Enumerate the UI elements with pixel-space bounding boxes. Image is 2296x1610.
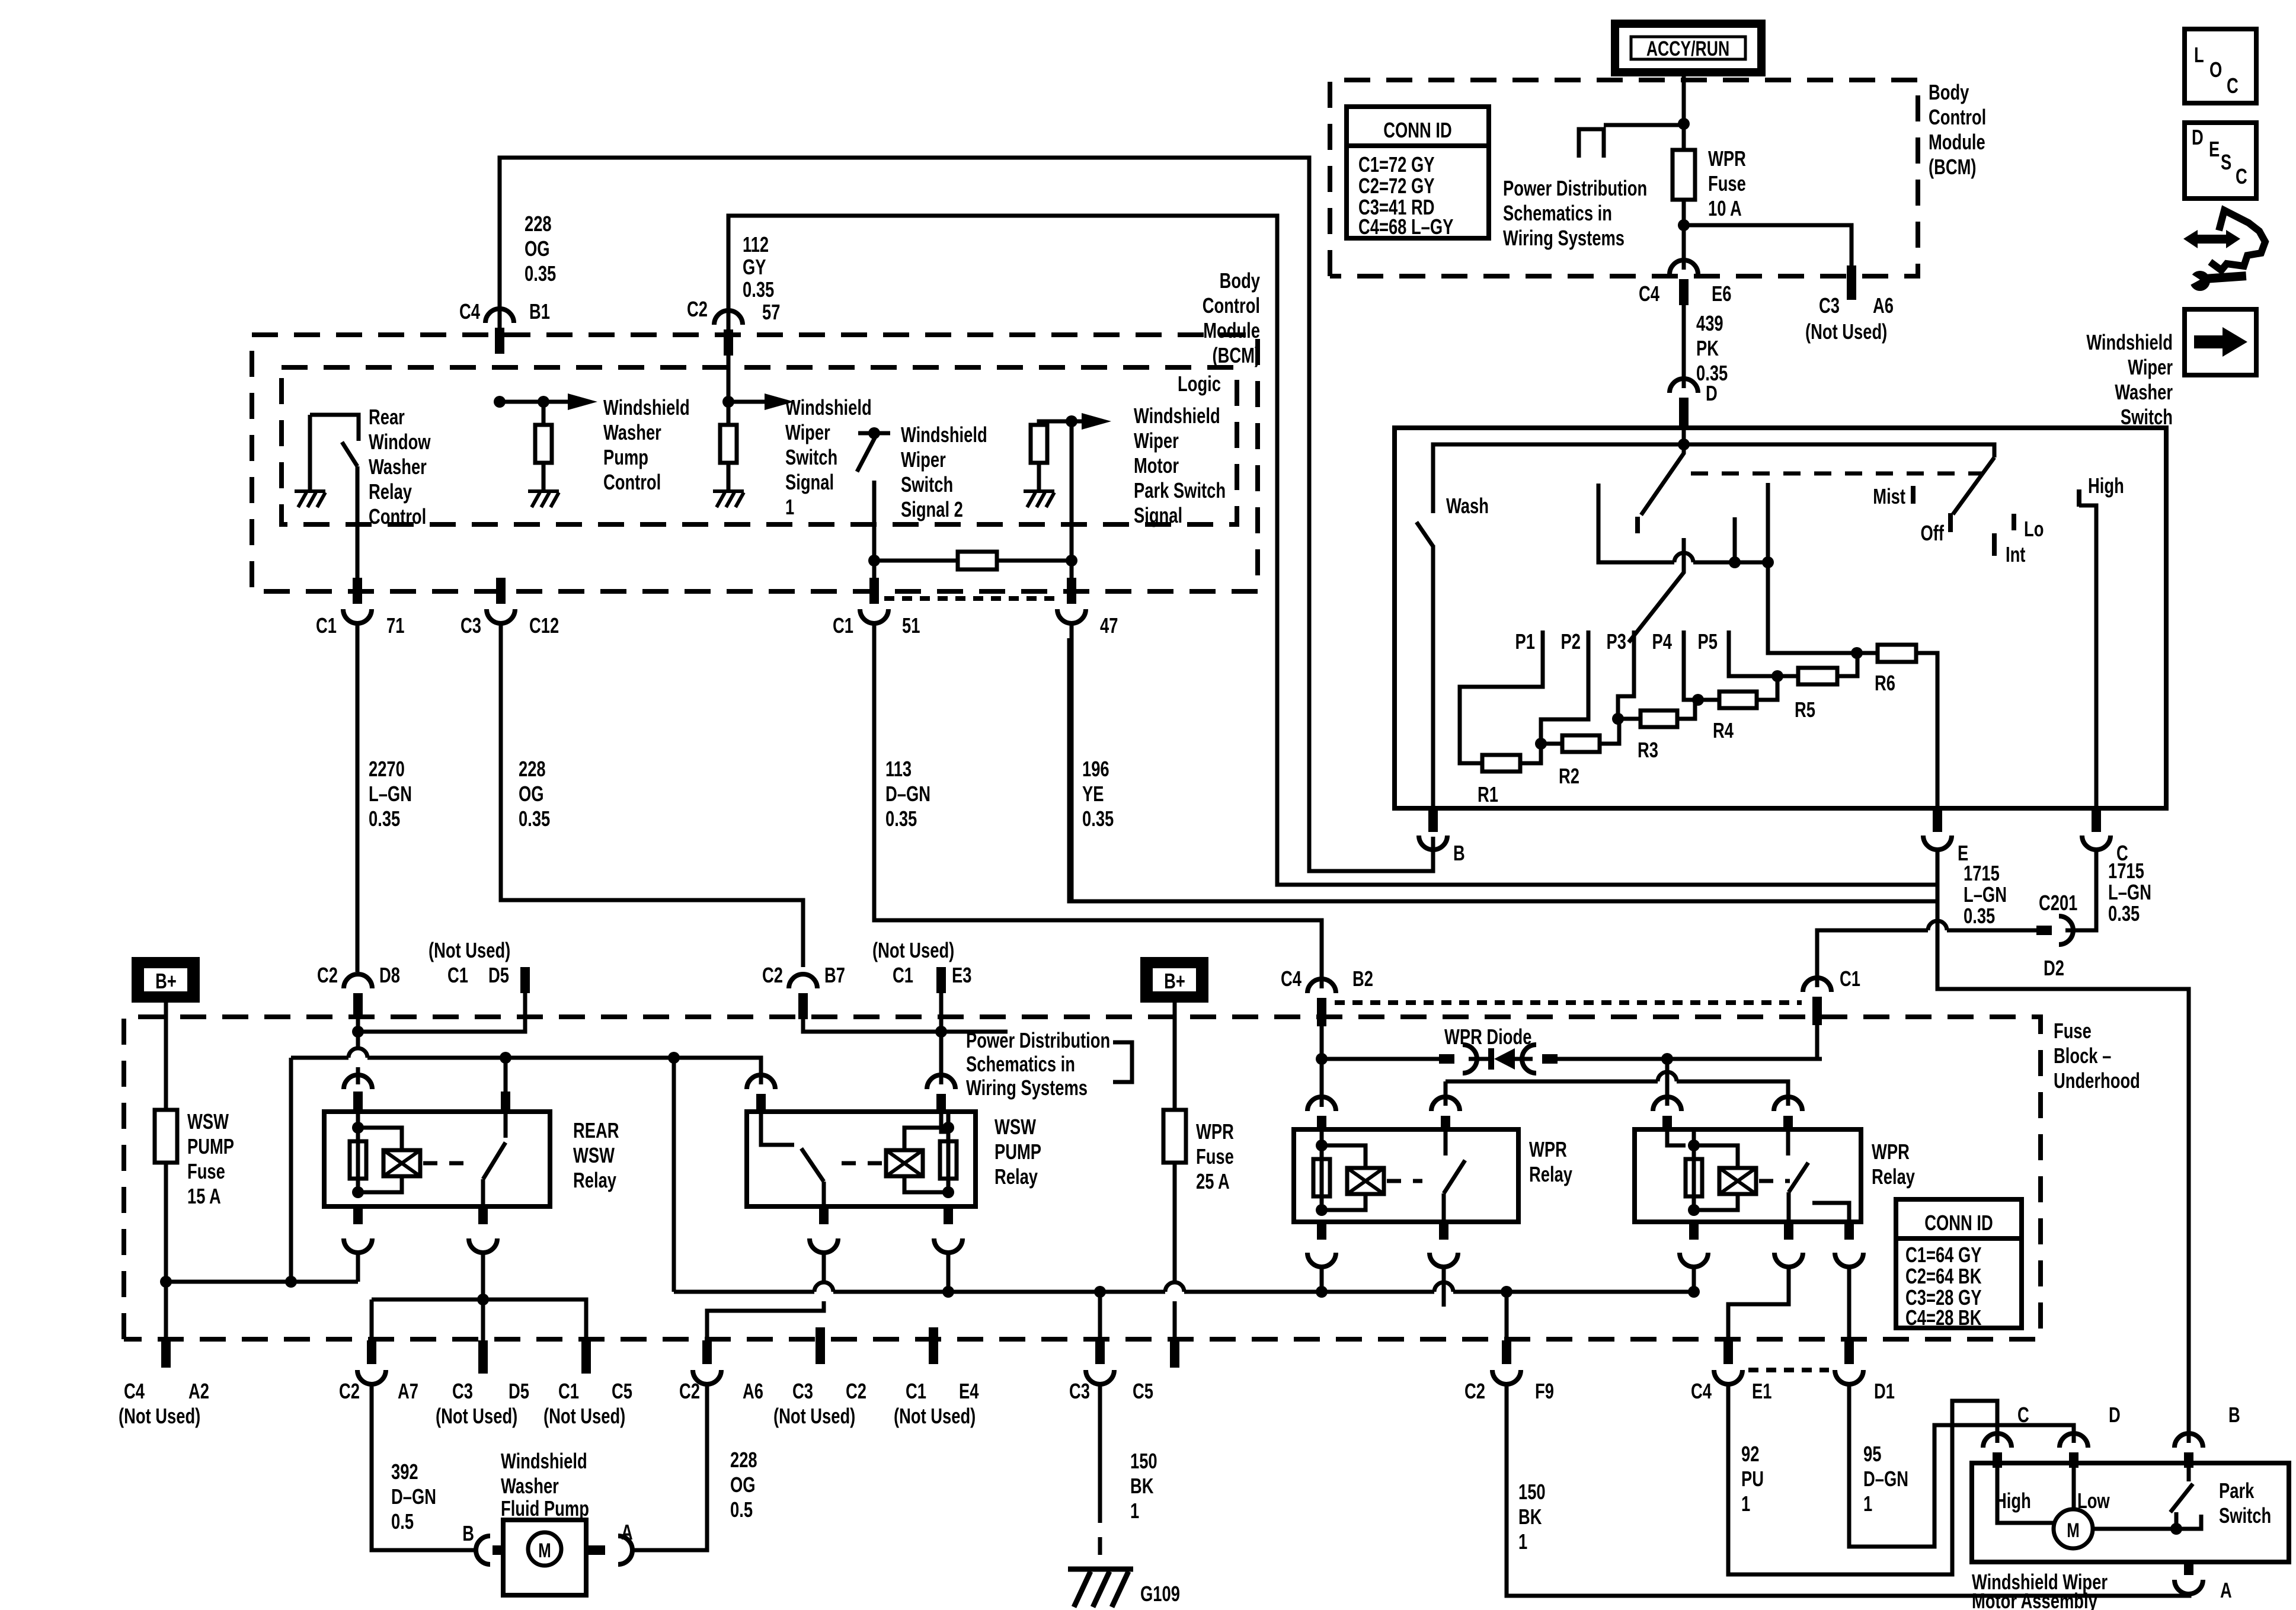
svg-text:WSW: WSW [994, 1115, 1037, 1139]
svg-text:1: 1 [785, 495, 794, 519]
svg-text:D2: D2 [2044, 956, 2064, 980]
svg-text:BK: BK [1518, 1505, 1542, 1529]
svg-text:C3: C3 [461, 613, 481, 638]
svg-text:0.35: 0.35 [1964, 904, 1995, 928]
svg-text:A6: A6 [1873, 293, 1894, 318]
svg-text:Control: Control [1203, 293, 1260, 318]
svg-text:1: 1 [1863, 1491, 1872, 1516]
svg-text:PK: PK [1696, 336, 1719, 360]
svg-text:228: 228 [525, 212, 552, 236]
svg-text:PUMP: PUMP [994, 1140, 1041, 1164]
svg-text:C: C [2236, 164, 2247, 188]
svg-text:Module: Module [1929, 130, 1985, 154]
svg-text:Windshield: Windshield [1134, 404, 1220, 428]
svg-text:Wiper: Wiper [2128, 355, 2173, 379]
svg-text:L: L [2194, 43, 2204, 67]
svg-text:Fluid Pump: Fluid Pump [501, 1496, 589, 1521]
svg-text:1: 1 [1518, 1529, 1527, 1554]
svg-text:Control: Control [603, 470, 661, 494]
svg-text:CONN ID: CONN ID [1924, 1211, 1993, 1235]
svg-text:L–GN: L–GN [1964, 882, 2007, 907]
svg-text:Fuse: Fuse [2054, 1019, 2092, 1043]
svg-text:P2: P2 [1561, 629, 1581, 654]
svg-text:O: O [2209, 57, 2222, 82]
svg-text:Signal: Signal [785, 470, 834, 494]
svg-text:WPR: WPR [1529, 1137, 1567, 1161]
svg-text:0.35: 0.35 [369, 806, 400, 831]
svg-text:M: M [538, 1540, 551, 1562]
svg-text:C4: C4 [459, 299, 480, 324]
svg-text:0.35: 0.35 [885, 806, 917, 831]
svg-text:439: 439 [1696, 311, 1723, 335]
svg-text:B: B [1453, 841, 1465, 865]
svg-text:Motor: Motor [1134, 453, 1179, 478]
svg-text:Underhood: Underhood [2054, 1068, 2140, 1093]
svg-text:WPR: WPR [1708, 146, 1746, 171]
svg-text:Park: Park [2219, 1478, 2255, 1503]
svg-text:B+: B+ [1164, 969, 1185, 993]
svg-text:Washer: Washer [2115, 380, 2173, 404]
svg-text:92: 92 [1741, 1442, 1759, 1466]
svg-text:C: C [2227, 73, 2239, 98]
svg-text:C4=28 BK: C4=28 BK [1905, 1305, 1981, 1330]
svg-text:392: 392 [391, 1459, 418, 1484]
svg-text:0.35: 0.35 [525, 261, 556, 286]
svg-text:D8: D8 [379, 963, 400, 987]
svg-text:C2: C2 [317, 963, 338, 987]
svg-text:Schematics in: Schematics in [966, 1052, 1075, 1076]
svg-text:C: C [2017, 1403, 2029, 1427]
svg-text:0.5: 0.5 [391, 1509, 414, 1534]
svg-text:C2: C2 [762, 963, 783, 987]
svg-text:R2: R2 [1559, 764, 1579, 788]
svg-text:51: 51 [902, 613, 920, 638]
svg-text:ACCY/RUN: ACCY/RUN [1646, 37, 1729, 60]
svg-text:B+: B+ [155, 969, 177, 993]
svg-text:(Not Used): (Not Used) [119, 1404, 200, 1428]
svg-text:D1: D1 [1874, 1379, 1895, 1403]
svg-text:A: A [2220, 1578, 2232, 1602]
svg-text:(Not Used): (Not Used) [894, 1404, 976, 1428]
svg-text:Relay: Relay [1872, 1164, 1915, 1189]
svg-text:F9: F9 [1535, 1379, 1554, 1403]
svg-text:Relay: Relay [994, 1164, 1038, 1189]
svg-text:Logic: Logic [1178, 372, 1221, 396]
svg-text:Rear: Rear [369, 405, 405, 429]
svg-text:D: D [1706, 381, 1718, 405]
svg-text:E6: E6 [1712, 281, 1731, 306]
svg-text:D: D [2192, 125, 2204, 149]
svg-text:Wiring Systems: Wiring Systems [966, 1076, 1088, 1100]
svg-text:Control: Control [369, 504, 426, 529]
svg-text:D–GN: D–GN [391, 1484, 436, 1509]
svg-text:C2=64 BK: C2=64 BK [1905, 1264, 1981, 1288]
svg-text:228: 228 [730, 1448, 757, 1472]
svg-text:C2: C2 [846, 1379, 866, 1403]
svg-text:C1: C1 [316, 613, 337, 638]
svg-text:P3: P3 [1607, 629, 1626, 654]
svg-text:Fuse: Fuse [1196, 1144, 1234, 1169]
svg-text:Signal 2: Signal 2 [901, 497, 963, 521]
svg-text:E1: E1 [1752, 1379, 1771, 1403]
svg-text:GY: GY [743, 255, 766, 279]
svg-text:L–GN: L–GN [2108, 880, 2151, 904]
svg-text:C2: C2 [1464, 1379, 1485, 1403]
svg-text:D5: D5 [509, 1379, 529, 1403]
svg-text:(Not Used): (Not Used) [543, 1404, 625, 1428]
svg-text:Fuse: Fuse [1708, 171, 1746, 196]
svg-text:C1: C1 [906, 1379, 926, 1403]
svg-text:C201: C201 [2039, 891, 2077, 915]
svg-text:(BCM): (BCM) [1212, 343, 1260, 367]
svg-text:B: B [462, 1521, 474, 1545]
svg-text:D: D [2109, 1403, 2121, 1427]
svg-text:228: 228 [519, 757, 546, 781]
svg-text:BK: BK [1130, 1474, 1154, 1498]
svg-text:B1: B1 [529, 299, 550, 324]
svg-text:Switch: Switch [2121, 405, 2173, 429]
svg-text:0.35: 0.35 [743, 277, 774, 302]
svg-text:A2: A2 [188, 1379, 209, 1403]
svg-text:WSW: WSW [187, 1109, 229, 1134]
svg-text:C3: C3 [792, 1379, 813, 1403]
svg-text:Body: Body [1220, 268, 1261, 293]
svg-text:WPR Diode: WPR Diode [1444, 1025, 1531, 1049]
svg-text:R3: R3 [1638, 738, 1658, 762]
svg-text:C5: C5 [612, 1379, 632, 1403]
svg-text:Int: Int [2006, 542, 2026, 566]
svg-text:Body: Body [1929, 80, 1969, 104]
svg-text:E: E [2209, 137, 2220, 161]
svg-text:Lo: Lo [2024, 517, 2044, 541]
svg-text:C2: C2 [687, 297, 708, 321]
svg-text:150: 150 [1130, 1449, 1157, 1473]
svg-text:Low: Low [2077, 1489, 2110, 1513]
svg-text:0.5: 0.5 [730, 1497, 753, 1522]
svg-text:Washer: Washer [501, 1474, 559, 1498]
svg-text:C5: C5 [1133, 1379, 1153, 1403]
svg-text:C1=72 GY: C1=72 GY [1358, 152, 1435, 177]
svg-text:D–GN: D–GN [1863, 1467, 1908, 1491]
svg-text:Switch: Switch [901, 472, 953, 497]
svg-text:R5: R5 [1795, 697, 1815, 722]
svg-text:C2: C2 [679, 1379, 700, 1403]
svg-text:Relay: Relay [369, 479, 412, 504]
svg-text:E3: E3 [952, 963, 971, 987]
svg-text:112: 112 [743, 232, 769, 257]
svg-text:Washer: Washer [603, 420, 661, 444]
svg-text:E4: E4 [959, 1379, 979, 1403]
svg-text:High: High [2088, 473, 2124, 498]
svg-text:Pump: Pump [603, 445, 648, 469]
svg-text:M: M [2067, 1520, 2080, 1542]
svg-text:PU: PU [1741, 1467, 1764, 1491]
svg-text:Wiper: Wiper [785, 420, 830, 444]
svg-text:Switch: Switch [2219, 1503, 2271, 1528]
svg-text:A: A [621, 1520, 633, 1544]
svg-text:71: 71 [386, 613, 404, 638]
svg-text:C1: C1 [447, 963, 468, 987]
svg-text:(Not Used): (Not Used) [1805, 319, 1887, 344]
svg-text:OG: OG [525, 236, 550, 261]
svg-text:196: 196 [1082, 757, 1109, 781]
svg-text:C3: C3 [1819, 293, 1840, 318]
svg-text:(BCM): (BCM) [1929, 155, 1977, 179]
svg-text:Park Switch: Park Switch [1134, 478, 1226, 502]
svg-text:D–GN: D–GN [885, 782, 930, 806]
svg-text:A7: A7 [398, 1379, 418, 1403]
svg-text:P1: P1 [1515, 629, 1535, 654]
svg-text:Mist: Mist [1873, 484, 1905, 508]
svg-text:Wiper: Wiper [1134, 428, 1179, 453]
svg-text:150: 150 [1518, 1480, 1546, 1504]
svg-text:47: 47 [1100, 613, 1118, 638]
svg-text:P5: P5 [1698, 629, 1718, 654]
svg-text:1715: 1715 [2108, 859, 2144, 883]
svg-text:Switch: Switch [785, 445, 837, 469]
svg-text:C1: C1 [893, 963, 913, 987]
svg-text:Signal: Signal [1134, 503, 1182, 527]
svg-text:OG: OG [519, 782, 544, 806]
svg-text:S: S [2221, 150, 2231, 174]
svg-text:Windshield: Windshield [603, 395, 690, 420]
svg-text:Off: Off [1920, 521, 1944, 545]
svg-text:L–GN: L–GN [369, 782, 412, 806]
svg-text:WSW: WSW [573, 1143, 615, 1167]
svg-text:C1: C1 [1840, 966, 1860, 991]
svg-text:0.35: 0.35 [519, 806, 550, 831]
svg-text:Windshield: Windshield [901, 422, 987, 447]
svg-text:D5: D5 [488, 963, 509, 987]
svg-text:C1: C1 [558, 1379, 579, 1403]
svg-text:P4: P4 [1652, 629, 1673, 654]
svg-text:C4: C4 [1691, 1379, 1712, 1403]
svg-text:(Not Used): (Not Used) [872, 938, 954, 962]
svg-text:Control: Control [1929, 105, 1986, 129]
svg-text:C4: C4 [1639, 281, 1659, 306]
svg-text:R4: R4 [1713, 718, 1734, 742]
svg-text:B7: B7 [824, 963, 845, 987]
svg-text:Windshield: Windshield [2086, 330, 2173, 354]
svg-text:Wiring Systems: Wiring Systems [1503, 226, 1625, 250]
svg-text:CONN ID: CONN ID [1383, 118, 1452, 142]
svg-text:1715: 1715 [1964, 861, 2000, 885]
svg-text:(Not Used): (Not Used) [428, 938, 510, 962]
svg-text:Block –: Block – [2054, 1044, 2111, 1068]
svg-text:C2: C2 [339, 1379, 360, 1403]
svg-text:10 A: 10 A [1708, 196, 1742, 220]
svg-text:REAR: REAR [573, 1118, 619, 1142]
svg-text:C3: C3 [452, 1379, 473, 1403]
svg-text:Module: Module [1203, 318, 1260, 343]
svg-text:1: 1 [1741, 1491, 1750, 1516]
svg-text:R6: R6 [1875, 671, 1895, 695]
svg-text:0.35: 0.35 [1082, 806, 1114, 831]
svg-text:Washer: Washer [369, 454, 427, 479]
svg-text:C4: C4 [1281, 966, 1302, 991]
svg-text:PUMP: PUMP [187, 1134, 234, 1158]
svg-text:Windshield: Windshield [501, 1449, 587, 1473]
svg-text:C4=68 L–GY: C4=68 L–GY [1358, 215, 1453, 239]
svg-text:A6: A6 [743, 1379, 763, 1403]
svg-text:(Not Used): (Not Used) [773, 1404, 855, 1428]
svg-text:OG: OG [730, 1473, 756, 1497]
svg-text:2270: 2270 [369, 757, 405, 781]
svg-text:C4: C4 [124, 1379, 145, 1403]
svg-text:WPR: WPR [1196, 1119, 1234, 1144]
svg-text:15 A: 15 A [187, 1184, 221, 1208]
svg-text:C12: C12 [529, 613, 559, 638]
svg-text:G109: G109 [1140, 1582, 1180, 1606]
svg-text:(Not Used): (Not Used) [436, 1404, 517, 1428]
svg-text:C1=64 GY: C1=64 GY [1905, 1243, 1982, 1267]
svg-text:High: High [1995, 1489, 2031, 1513]
svg-text:Power Distribution: Power Distribution [966, 1028, 1110, 1052]
svg-text:B: B [2228, 1403, 2240, 1427]
svg-text:C2=72 GY: C2=72 GY [1358, 174, 1435, 198]
svg-text:Motor Assembly: Motor Assembly [1972, 1589, 2097, 1610]
svg-text:113: 113 [885, 757, 912, 781]
svg-text:Window: Window [369, 430, 431, 454]
svg-text:R1: R1 [1478, 782, 1498, 806]
svg-text:Wash: Wash [1446, 494, 1489, 518]
svg-text:Fuse: Fuse [187, 1159, 225, 1183]
svg-text:B2: B2 [1352, 966, 1373, 991]
svg-text:Windshield: Windshield [785, 395, 872, 420]
svg-text:1: 1 [1130, 1499, 1139, 1523]
svg-text:C1: C1 [833, 613, 853, 638]
svg-text:YE: YE [1082, 782, 1104, 806]
svg-text:0.35: 0.35 [2108, 901, 2140, 926]
svg-text:Schematics in: Schematics in [1503, 201, 1612, 225]
svg-text:Relay: Relay [573, 1168, 616, 1192]
svg-text:Wiper: Wiper [901, 447, 946, 472]
svg-text:95: 95 [1863, 1442, 1881, 1466]
svg-text:WPR: WPR [1872, 1140, 1910, 1164]
svg-text:C3: C3 [1069, 1379, 1090, 1403]
svg-text:Relay: Relay [1529, 1162, 1572, 1186]
svg-text:Power Distribution: Power Distribution [1503, 176, 1647, 200]
svg-text:57: 57 [762, 300, 780, 324]
svg-text:25 A: 25 A [1196, 1169, 1230, 1193]
